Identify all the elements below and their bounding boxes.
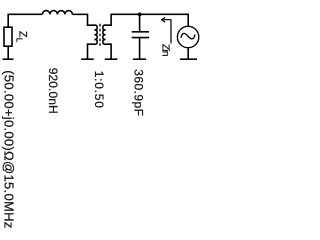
- wire: [139, 38, 141, 59]
- svg-text:1:0.50: 1:0.50: [92, 71, 106, 109]
- wire: [8, 13, 42, 15]
- transformer T1 core: [99, 24, 101, 46]
- node A junction dot: [138, 12, 142, 16]
- inductor L1: [42, 11, 72, 15]
- svg-text:Zin: Zin: [159, 44, 171, 57]
- Zin arrow: [162, 20, 171, 44]
- svg-text:ZL: ZL: [15, 31, 29, 43]
- wire: [139, 14, 141, 31]
- Zin arrowhead: [162, 17, 166, 22]
- svg-text:920.0nH: 920.0nH: [46, 68, 60, 114]
- ground: [3, 58, 14, 60]
- wire: [111, 13, 188, 15]
- ground: [81, 58, 94, 60]
- capacitor C1 bottom plate: [132, 37, 149, 39]
- transformer T1 secondary winding: [103, 14, 111, 60]
- capacitor C1 top plate: [132, 31, 149, 33]
- transformer T1 primary winding: [88, 14, 98, 60]
- wire: [72, 13, 87, 15]
- wire: [187, 14, 189, 27]
- resistor ZL box: [4, 27, 12, 46]
- wire: [7, 46, 9, 59]
- ground: [105, 58, 118, 60]
- source V1 sine: [181, 33, 195, 38]
- wire: [7, 14, 9, 28]
- svg-text:360.9pF: 360.9pF: [131, 69, 145, 116]
- source V1 circle: [177, 26, 198, 47]
- ground: [133, 58, 146, 60]
- wire: [187, 48, 189, 60]
- ground: [180, 58, 197, 60]
- svg-text:(50.00+j0.00)Ω@15.0MHz: (50.00+j0.00)Ω@15.0MHz: [1, 70, 16, 228]
